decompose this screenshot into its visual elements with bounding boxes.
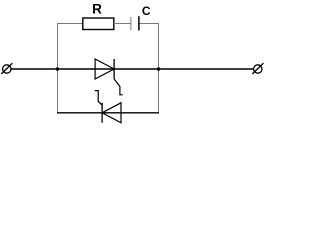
node A (junction dot left) bbox=[56, 67, 60, 71]
terminal J1 (left, circle with slash) bbox=[1, 63, 12, 74]
svg-text:R: R bbox=[92, 2, 102, 17]
wire: right rail (vertical) bbox=[158, 23, 160, 113]
thyristor SCR1 (upper, pointing right) bbox=[95, 59, 123, 95]
wire: left terminal to left rail junction bbox=[11, 68, 58, 70]
node B (junction dot right) bbox=[157, 67, 161, 71]
resistor R bbox=[83, 18, 114, 30]
wire: left rail (vertical) bbox=[57, 23, 59, 113]
svg-text:C: C bbox=[142, 4, 151, 18]
wire: main horizontal through upper SCR bbox=[58, 68, 159, 70]
thyristor SCR2 (lower, pointing left) bbox=[95, 91, 121, 123]
wire: right junction to right terminal bbox=[159, 68, 254, 70]
capacitor C bbox=[131, 16, 139, 30]
wire: top-left corner to resistor bbox=[57, 23, 83, 25]
wire: resistor to capacitor bbox=[114, 23, 131, 25]
wire: capacitor to top-right corner bbox=[140, 23, 159, 25]
wire: bottom branch bbox=[57, 112, 159, 114]
terminal J2 (right, circle with slash) bbox=[252, 63, 263, 74]
